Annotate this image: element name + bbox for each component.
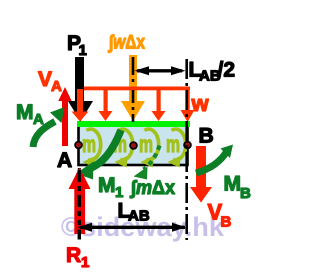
arrowhead of MB: [221, 145, 234, 159]
svg-text:B: B: [240, 185, 251, 202]
resultant load arrow (orange, at mid-span): [129, 55, 137, 101]
dash-dot overlay on R1: [78, 170, 81, 225]
arrowhead of M1: [76, 162, 94, 180]
svg-text:1: 1: [79, 42, 87, 59]
distributed moment arc m2: [119, 129, 133, 160]
svg-text:1: 1: [81, 254, 89, 271]
svg-text:B: B: [199, 125, 214, 148]
svg-text:AB: AB: [128, 208, 150, 225]
centreline at B (dash-dot): [185, 59, 188, 240]
arrowhead of m1 arc: [83, 156, 97, 168]
beam top flange (green): [77, 121, 190, 127]
svg-text:m: m: [166, 131, 180, 157]
distributed load arrow 2: [104, 89, 108, 111]
dimension line LAB/2: [137, 69, 182, 72]
moment MA arrow (green curved): [33, 122, 55, 148]
distributed moment arc m4: [172, 129, 186, 160]
reaction VA arrow (red, up): [58, 87, 71, 101]
svg-text:m: m: [82, 131, 96, 157]
node dot at B end: [184, 142, 191, 149]
point load P1 arrow (black): [75, 57, 84, 101]
svg-text:A: A: [33, 111, 44, 128]
moment M1 arrow (curved, beam centre to support A): [88, 130, 121, 169]
arrowhead of m2 arc: [115, 156, 129, 168]
centreline at mid-span (dash-dot): [132, 57, 135, 122]
svg-text:R: R: [66, 244, 81, 267]
beam AB (light blue body): [79, 124, 188, 165]
svg-text:B: B: [221, 214, 232, 231]
centreline at A below beam (dash-dot): [78, 168, 81, 240]
svg-text:M: M: [224, 173, 242, 196]
svg-text:∫mΔx: ∫mΔx: [129, 178, 175, 199]
dash segment below dimension line at A: [78, 230, 81, 240]
reaction R1 arrow (red, up, below A): [69, 168, 91, 190]
distributed moment arc m1: [87, 129, 101, 160]
arrowhead of m4 arc: [168, 156, 182, 168]
svg-text:w: w: [191, 91, 210, 116]
node dot at A end: [75, 142, 82, 149]
arrowhead of MA: [50, 107, 65, 123]
dimension line LAB: [80, 226, 185, 229]
node dot at mid-span: [130, 142, 137, 149]
arrowhead of dashed m resultant: [134, 167, 148, 180]
dashed resultant arrow of m (to left): [144, 146, 160, 170]
svg-text:M: M: [98, 174, 116, 197]
svg-text:1: 1: [115, 184, 123, 201]
distributed moment arc m3: [145, 129, 159, 160]
distributed load arrow 4: [157, 89, 161, 111]
load line w (top of distributed load): [77, 87, 190, 91]
svg-text:A: A: [57, 149, 72, 172]
arrowhead of m3 arc: [141, 156, 155, 168]
svg-text:m: m: [139, 131, 153, 157]
svg-text:V: V: [38, 68, 52, 91]
svg-text:∫wΔx: ∫wΔx: [107, 33, 145, 54]
reaction VB arrow (red, down): [196, 146, 206, 188]
distributed load arrow 5 (at B centreline): [186, 89, 190, 110]
moment MB arrow (green curved): [196, 151, 227, 173]
svg-text:/2: /2: [218, 59, 236, 82]
svg-text:M: M: [16, 101, 34, 124]
svg-text:A: A: [51, 78, 62, 95]
distributed load arrow over P1 (red): [77, 89, 83, 112]
